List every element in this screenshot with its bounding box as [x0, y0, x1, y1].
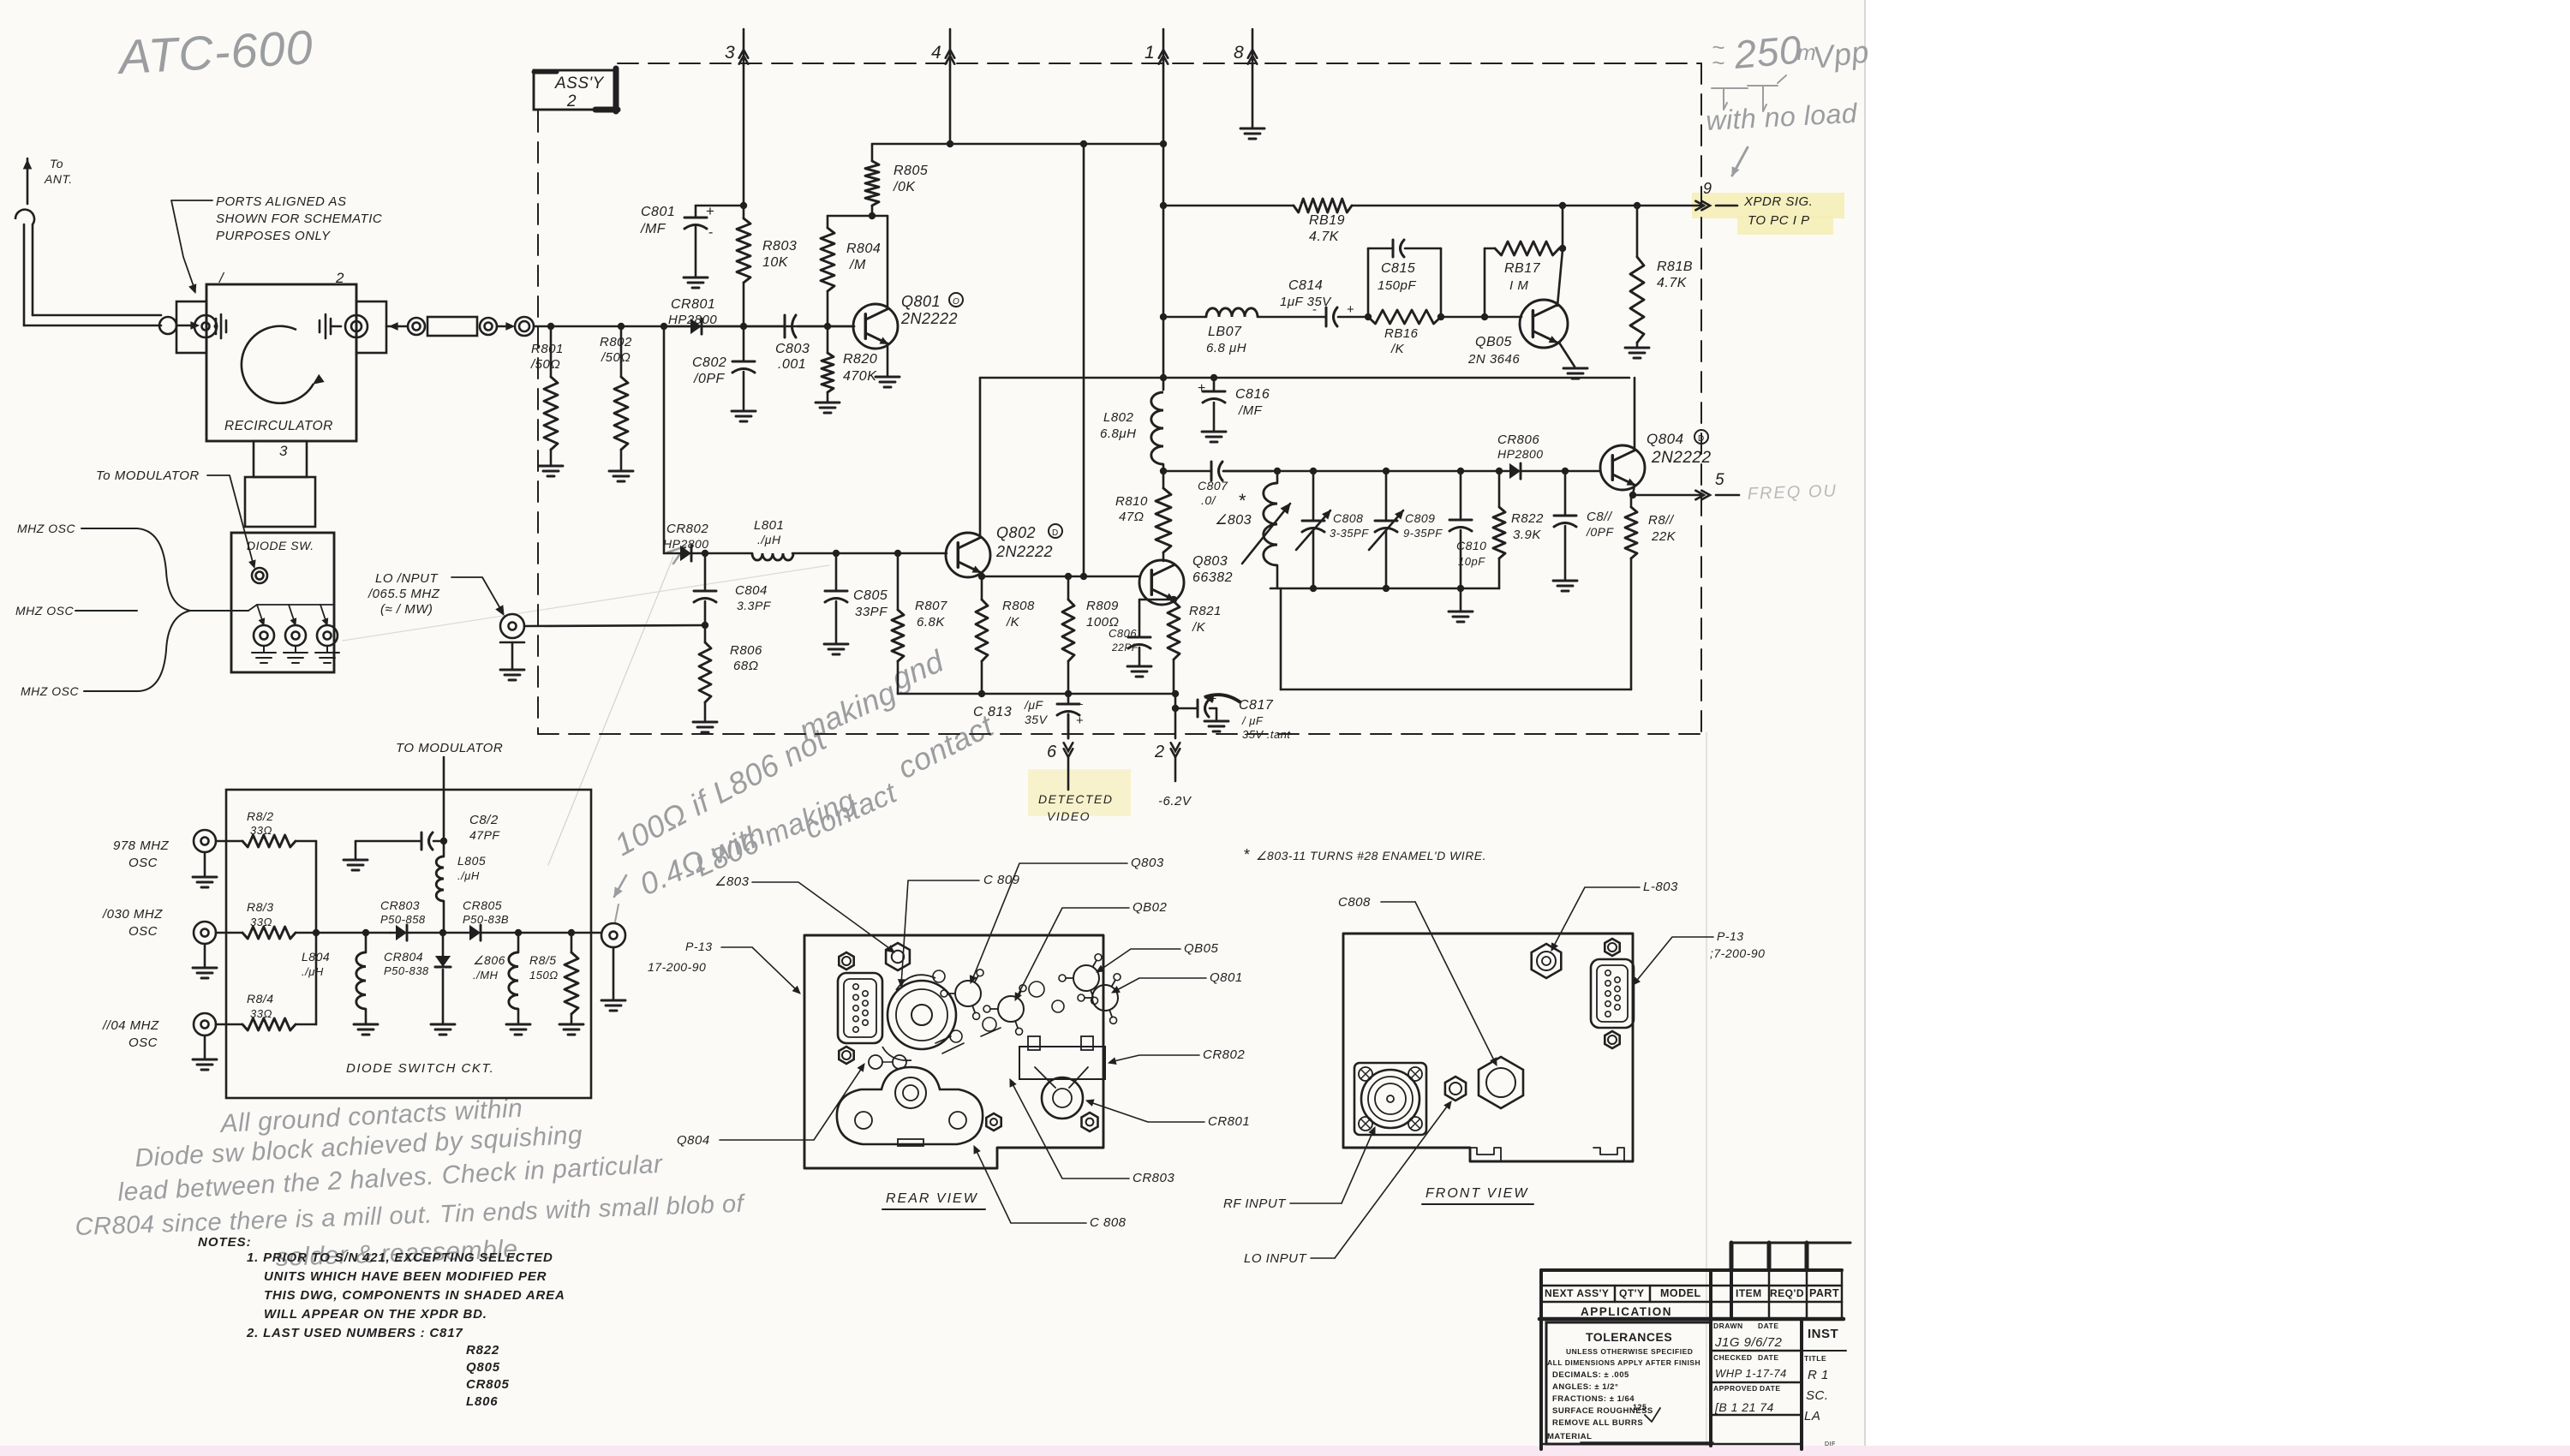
svg-text:RF INPUT: RF INPUT	[1223, 1196, 1287, 1211]
svg-text:~: ~	[1712, 50, 1725, 75]
pencil arrow small	[614, 875, 626, 897]
svg-text:CR803: CR803	[1133, 1171, 1174, 1185]
antenna feedline	[15, 210, 34, 224]
svg-text:CR806: CR806	[1497, 433, 1539, 447]
svg-text:LO INPUT: LO INPUT	[1244, 1251, 1308, 1266]
svg-text:ITEM: ITEM	[1736, 1287, 1762, 1299]
ground C817	[1204, 720, 1228, 723]
capacitor C809 variable	[1385, 471, 1388, 519]
resistor R811	[1630, 495, 1633, 507]
svg-text:QB02: QB02	[1133, 900, 1168, 915]
svg-text:FREQ OU: FREQ OU	[1747, 481, 1838, 504]
svg-text:./MH: ./MH	[473, 969, 499, 982]
front view C808 nut	[1479, 1057, 1523, 1108]
svg-text:P50-858: P50-858	[380, 913, 426, 926]
svg-text:Q805: Q805	[466, 1360, 500, 1375]
svg-text:R8/5: R8/5	[529, 953, 557, 967]
svg-text:1. PRIOR TO S/N 421, EXCEPTING: 1. PRIOR TO S/N 421, EXCEPTING SELECTED	[247, 1250, 553, 1265]
node C811	[1562, 468, 1569, 474]
svg-text:4: 4	[931, 43, 941, 63]
resistor R802	[620, 326, 623, 377]
svg-text:TITLE: TITLE	[1804, 1354, 1826, 1363]
resistor R822	[1498, 471, 1501, 507]
pin 8 connector	[1252, 29, 1254, 65]
wire Q802 base	[792, 552, 947, 555]
svg-text:J1G 9/6/72: J1G 9/6/72	[1714, 1335, 1783, 1350]
svg-text:OSC: OSC	[128, 924, 158, 939]
wire Q805 emitter	[1559, 343, 1575, 367]
ground pin8	[1240, 128, 1264, 130]
pin 5 freq out	[1701, 491, 1710, 500]
svg-text:R822: R822	[466, 1343, 499, 1358]
resistor R821	[1168, 601, 1180, 659]
svg-text:∠803-11 TURNS #28 ENAMEL'D WI: ∠803-11 TURNS #28 ENAMEL'D WIRE.	[1256, 849, 1486, 862]
connector 978	[194, 830, 216, 852]
svg-text:C806: C806	[1109, 627, 1137, 640]
svg-text:/50Ω: /50Ω	[530, 357, 560, 372]
recirculator arrow	[242, 326, 314, 403]
resistor R813	[242, 927, 296, 939]
svg-text:NOTES:: NOTES:	[198, 1235, 252, 1250]
arrow into port2	[390, 323, 397, 330]
front view LO connector	[1445, 1077, 1466, 1101]
wire tank bottom	[1270, 588, 1499, 590]
svg-text:DATE: DATE	[1758, 1322, 1779, 1330]
svg-text:R820: R820	[843, 352, 877, 367]
wire 978	[216, 840, 242, 843]
capacitor C806	[1139, 599, 1174, 601]
svg-text:CR804: CR804	[384, 950, 423, 964]
diode sw output wire	[571, 932, 601, 934]
svg-text:/MF: /MF	[640, 222, 666, 236]
svg-text:.001: .001	[778, 357, 806, 372]
svg-text:C815: C815	[1381, 261, 1415, 276]
resistor R818	[1636, 206, 1639, 257]
svg-text:Q803: Q803	[1192, 554, 1228, 569]
svg-text:10pF: 10pF	[1458, 555, 1485, 568]
title block top ticks	[1730, 1243, 1734, 1270]
diode CR806	[1509, 463, 1521, 479]
recirculator port3 stack	[254, 441, 307, 477]
svg-text:1: 1	[1145, 43, 1155, 63]
antenna arrow	[27, 158, 29, 204]
front view P-13 connector	[1591, 959, 1634, 1028]
title block col lines	[1614, 1286, 1617, 1302]
svg-text:/K: /K	[1390, 342, 1405, 356]
svg-text:TOLERANCES: TOLERANCES	[1586, 1330, 1672, 1344]
drawn box	[1800, 1319, 1803, 1449]
svg-text:THIS DWG, COMPONENTS IN SHADED: THIS DWG, COMPONENTS IN SHADED AREA	[264, 1288, 565, 1303]
svg-text:22K: 22K	[1651, 529, 1676, 544]
diode CR805	[443, 932, 469, 934]
connector at port1	[159, 317, 176, 334]
transistor Q802	[946, 533, 990, 577]
svg-text:L805: L805	[457, 854, 486, 868]
svg-text:R821: R821	[1189, 604, 1222, 618]
wire tank top	[1223, 470, 1509, 473]
inductor L804	[365, 933, 368, 952]
svg-text:150pF: 150pF	[1378, 278, 1416, 293]
wire tank to feedback	[1280, 588, 1282, 689]
wire Q804 emitter	[1633, 485, 1635, 495]
svg-text:_: _	[1075, 691, 1083, 705]
wire Q801 emitter	[887, 344, 889, 375]
pin 2 -6.2V	[1174, 694, 1177, 738]
svg-text:QT'Y: QT'Y	[1619, 1287, 1645, 1299]
node C805	[833, 550, 840, 557]
svg-text:4.7K: 4.7K	[1309, 230, 1340, 244]
svg-text:∠806: ∠806	[473, 953, 505, 967]
svg-text:L801: L801	[754, 518, 784, 533]
capacitor C815 parallel	[1367, 248, 1370, 317]
resistor R816	[1368, 310, 1441, 324]
diode switch ckt box	[226, 790, 591, 1098]
svg-text:QB05: QB05	[1184, 941, 1219, 956]
svg-text:To MODULATOR: To MODULATOR	[96, 468, 200, 483]
wire CR802 drop	[663, 326, 666, 553]
svg-text:VIDEO: VIDEO	[1047, 809, 1091, 823]
svg-text:C803: C803	[775, 342, 810, 356]
ground Q801	[876, 376, 899, 379]
resistor R815	[571, 933, 573, 952]
svg-text:C802: C802	[692, 355, 726, 370]
svg-text:/K: /K	[1192, 620, 1206, 635]
diode CR802	[664, 552, 680, 555]
svg-text://04 MHZ: //04 MHZ	[102, 1018, 159, 1033]
svg-text:Vpp: Vpp	[1811, 33, 1871, 75]
svg-text:+: +	[1198, 381, 1206, 396]
svg-text:REQ'D: REQ'D	[1770, 1287, 1804, 1299]
resistor R801	[550, 326, 553, 377]
svg-text:L804: L804	[302, 950, 330, 964]
title block outer	[1541, 1268, 1842, 1272]
resistor R806	[704, 625, 707, 642]
svg-text:Q801: Q801	[1210, 970, 1243, 985]
svg-text:2N 3646: 2N 3646	[1467, 352, 1520, 367]
svg-text:C805: C805	[853, 588, 888, 603]
diode sw top connector	[252, 568, 267, 583]
svg-text:470K: 470K	[843, 369, 877, 384]
pin 9 xpdr	[1701, 201, 1710, 211]
svg-text:MODEL: MODEL	[1660, 1287, 1701, 1299]
svg-text:ANT.: ANT.	[44, 172, 73, 186]
svg-text:I M: I M	[1509, 278, 1528, 293]
svg-text:OSC: OSC	[128, 1035, 158, 1050]
svg-text:2: 2	[335, 270, 344, 286]
svg-text:FRONT VIEW: FRONT VIEW	[1425, 1186, 1528, 1201]
svg-text:PART: PART	[1809, 1287, 1839, 1299]
capacitor C813	[1067, 694, 1070, 702]
svg-text:3: 3	[725, 43, 735, 63]
svg-text:33Ω: 33Ω	[250, 824, 272, 837]
svg-text:UNITS WHICH HAVE BEEN MODIFIED: UNITS WHICH HAVE BEEN MODIFIED PER	[264, 1269, 547, 1284]
diode sw inner wire	[248, 610, 327, 612]
capacitor C810	[1460, 471, 1462, 518]
svg-text:DETECTED: DETECTED	[1038, 792, 1113, 806]
inductor L801	[705, 552, 752, 555]
ink arrow C817	[1204, 695, 1240, 702]
wire 1030 line	[296, 932, 390, 934]
diode sw box	[231, 533, 334, 672]
svg-text:CR802: CR802	[1203, 1047, 1245, 1062]
svg-text:DIODE SW.: DIODE SW.	[247, 539, 314, 552]
wire main RF	[386, 325, 408, 328]
diode CR803	[396, 925, 407, 940]
svg-text:CR802: CR802	[666, 522, 708, 536]
svg-text:C808: C808	[1338, 895, 1371, 910]
svg-text:QB05: QB05	[1475, 335, 1512, 349]
node R803 main	[740, 323, 747, 330]
osc brace	[137, 528, 190, 691]
ground 978	[193, 876, 217, 879]
svg-text:Q804: Q804	[1647, 431, 1684, 447]
svg-text:MATERIAL: MATERIAL	[1547, 1432, 1592, 1441]
port1 cap symbol	[215, 319, 218, 334]
transistor Q804	[1600, 445, 1645, 490]
svg-text:150Ω: 150Ω	[529, 969, 559, 982]
diode CR801	[664, 325, 690, 328]
svg-text:./μH: ./μH	[757, 533, 781, 546]
recirculator port2 connector	[345, 315, 368, 337]
svg-text:35V .tant: 35V .tant	[1242, 728, 1291, 741]
diode CR804 shunt	[442, 933, 445, 956]
resistor R807	[897, 553, 899, 610]
svg-text:CR801: CR801	[1208, 1114, 1250, 1129]
svg-text:O: O	[953, 297, 959, 307]
svg-text:.0/: .0/	[1201, 493, 1217, 507]
svg-text:DIF: DIF	[1825, 1441, 1836, 1447]
svg-text:C8/2: C8/2	[469, 813, 499, 827]
resistor R812	[242, 835, 296, 847]
front view board outline	[1343, 934, 1633, 1161]
svg-text:Q804: Q804	[677, 1133, 710, 1148]
svg-text:68Ω: 68Ω	[733, 659, 759, 673]
svg-text:*: *	[1239, 490, 1246, 511]
wire xpdr	[1163, 205, 1294, 207]
LO input leader	[451, 577, 502, 612]
node L806	[515, 929, 522, 936]
ground C806	[1127, 665, 1151, 668]
svg-text:/0K: /0K	[893, 180, 916, 194]
svg-text:125: 125	[1633, 1403, 1647, 1411]
svg-text:DRAWN: DRAWN	[1713, 1322, 1743, 1330]
svg-text:6.8μH: 6.8μH	[1100, 427, 1136, 441]
svg-text:;7-200-90: ;7-200-90	[1710, 946, 1765, 960]
ground tank	[1460, 588, 1462, 610]
wire collector node Q801	[828, 215, 888, 218]
svg-text:978 MHZ: 978 MHZ	[113, 838, 170, 853]
capacitor C811	[1564, 471, 1567, 514]
recirculator port2 box	[356, 301, 386, 353]
svg-text:33Ω: 33Ω	[250, 916, 272, 928]
svg-text:R801: R801	[531, 342, 564, 356]
svg-text:Q802: Q802	[996, 524, 1036, 541]
svg-text:-: -	[708, 225, 714, 240]
svg-text:RB17: RB17	[1504, 261, 1541, 276]
svg-text:L802: L802	[1103, 410, 1134, 425]
svg-text:Q801: Q801	[901, 293, 941, 310]
coax link	[408, 318, 425, 335]
svg-text:LB07: LB07	[1208, 325, 1242, 339]
svg-text:WILL APPEAR ON THE XPDR BD.: WILL APPEAR ON THE XPDR BD.	[264, 1307, 487, 1322]
front view RF connector	[1354, 1063, 1426, 1135]
svg-text:R807: R807	[915, 599, 947, 613]
capacitor C804	[704, 553, 707, 589]
svg-text:TO MODULATOR: TO MODULATOR	[396, 741, 503, 755]
svg-text:(≈ / MW): (≈ / MW)	[380, 602, 433, 617]
svg-text:+: +	[706, 203, 714, 219]
svg-text:NEXT ASS'Y: NEXT ASS'Y	[1545, 1287, 1609, 1299]
wire Q802 collector	[979, 378, 982, 537]
node 775	[660, 323, 667, 330]
wire to R815	[518, 932, 571, 934]
wire 1104 to junction	[296, 1023, 316, 1026]
svg-text:RECIRCULATOR: RECIRCULATOR	[224, 419, 333, 433]
node R816 right	[1437, 313, 1444, 320]
node tank left	[1160, 468, 1167, 474]
wire 1030	[216, 932, 242, 934]
svg-text:CR803: CR803	[380, 898, 420, 912]
svg-text:R802: R802	[600, 335, 632, 349]
svg-text:R8/3: R8/3	[247, 900, 274, 914]
svg-text:R806: R806	[730, 643, 762, 658]
to modulator leader	[207, 475, 254, 565]
svg-text:CR801: CR801	[671, 297, 715, 312]
rear view CR801 can	[1042, 1077, 1083, 1119]
svg-text:HP2800: HP2800	[668, 313, 717, 327]
wire pin3 down	[743, 65, 745, 206]
node R809	[1065, 573, 1072, 580]
tolerances box	[1546, 1322, 1711, 1444]
capacitor C814	[1325, 307, 1328, 326]
svg-text:C807: C807	[1198, 479, 1228, 492]
svg-text:C 808: C 808	[1090, 1215, 1127, 1230]
svg-text:CR805: CR805	[466, 1377, 510, 1392]
ASS'Y 2 box	[534, 70, 618, 110]
svg-text:P50-83B: P50-83B	[463, 913, 509, 926]
inductor L805	[440, 838, 447, 844]
svg-text:MHZ OSC: MHZ OSC	[21, 684, 79, 698]
node R807	[894, 550, 901, 557]
rear view Q805 can	[1073, 965, 1099, 991]
rear view screw a	[1082, 1113, 1098, 1131]
inductor L806	[517, 933, 520, 952]
svg-text:LO /NPUT: LO /NPUT	[375, 571, 439, 586]
svg-text:6.8 μH: 6.8 μH	[1206, 341, 1246, 355]
svg-text:/ μF: / μF	[1241, 714, 1264, 727]
front view L803 nut	[1532, 944, 1562, 978]
svg-text:PORTS ALIGNED AS: PORTS ALIGNED AS	[216, 194, 347, 209]
svg-text:2: 2	[566, 92, 577, 110]
svg-text:+: +	[1347, 302, 1354, 317]
capacitor C812	[355, 841, 357, 858]
rear view CR802 block	[1019, 1047, 1105, 1079]
wire to Q804 base	[1565, 470, 1600, 473]
svg-text:47PF: 47PF	[469, 828, 500, 842]
svg-text:./μH: ./μH	[457, 869, 480, 882]
resistor R803	[743, 206, 745, 218]
svg-text:[B 1 21 74: [B 1 21 74	[1714, 1400, 1774, 1414]
front view feet	[1470, 1148, 1501, 1161]
svg-text:R809: R809	[1086, 599, 1119, 613]
svg-text:ANGLES: ± 1/2°: ANGLES: ± 1/2°	[1552, 1382, 1618, 1392]
capacitor C816	[1213, 378, 1216, 390]
svg-text:2N2222: 2N2222	[1651, 449, 1712, 467]
svg-text:C801: C801	[641, 205, 675, 219]
wire Q803 bias drop	[1083, 144, 1085, 576]
svg-text:3: 3	[279, 443, 288, 459]
svg-text:35V: 35V	[1025, 713, 1049, 726]
svg-text:/MF: /MF	[1238, 403, 1263, 418]
svg-text:L806: L806	[466, 1394, 498, 1409]
svg-text:UNLESS OTHERWISE SPECIFIED: UNLESS OTHERWISE SPECIFIED	[1566, 1347, 1693, 1356]
svg-text:D: D	[1052, 528, 1059, 538]
ground R806	[693, 721, 717, 724]
ground R801	[539, 465, 563, 468]
svg-text:R804: R804	[846, 242, 881, 256]
svg-text:47Ω: 47Ω	[1119, 510, 1145, 524]
ground R802	[609, 470, 633, 473]
svg-text:9-35PF: 9-35PF	[1403, 527, 1443, 540]
rear view Q801 can	[1092, 985, 1118, 1011]
svg-text:RB19: RB19	[1309, 213, 1345, 228]
recirculator box	[206, 284, 356, 441]
inductor L802	[1151, 392, 1163, 464]
svg-text:REMOVE ALL BURRS: REMOVE ALL BURRS	[1552, 1418, 1643, 1428]
svg-text:/μF: /μF	[1024, 698, 1044, 712]
wire Q804 collector	[1634, 378, 1636, 451]
svg-text:∠803: ∠803	[1215, 513, 1252, 528]
rear view Q803 can	[955, 981, 981, 1006]
capacitor C803	[744, 325, 785, 328]
node bias drop	[1080, 573, 1087, 580]
svg-text:/0PF: /0PF	[1586, 525, 1615, 539]
svg-text:DATE: DATE	[1758, 1353, 1779, 1362]
diode sw output connector	[601, 923, 625, 947]
svg-text:WHP 1-17-74: WHP 1-17-74	[1715, 1367, 1787, 1380]
inductor L803 variable	[1276, 471, 1279, 483]
recirculator port1 connector	[194, 315, 217, 337]
ground R820	[816, 402, 840, 404]
ground CR804	[431, 1023, 455, 1026]
resistor R810	[1162, 471, 1165, 488]
wire bias rail	[872, 143, 1163, 146]
svg-text:10K: 10K	[762, 255, 789, 270]
highlight XPDR SIG	[1692, 193, 1844, 218]
svg-text:PURPOSES ONLY: PURPOSES ONLY	[216, 229, 331, 243]
svg-text:-6.2V: -6.2V	[1158, 794, 1192, 809]
svg-text:HP2800: HP2800	[663, 537, 709, 551]
svg-text:2: 2	[1154, 743, 1165, 761]
ground L804	[354, 1023, 378, 1026]
svg-text:4.7K: 4.7K	[1657, 276, 1688, 290]
svg-text:ATC-600: ATC-600	[115, 20, 314, 84]
svg-text:./μH: ./μH	[302, 965, 324, 978]
svg-text:17-200-90: 17-200-90	[648, 960, 706, 974]
wire 1104	[216, 1023, 242, 1026]
connector 1030	[194, 922, 216, 944]
svg-text:REAR VIEW: REAR VIEW	[886, 1191, 978, 1206]
ground C801	[684, 277, 708, 279]
svg-text:2N2222: 2N2222	[995, 543, 1053, 560]
node C801/R803	[740, 202, 747, 209]
rear view Q802 can	[998, 996, 1024, 1022]
wire pin4 down	[949, 65, 952, 144]
svg-text:L-803: L-803	[1643, 880, 1678, 894]
svg-text:XPDR SIG.: XPDR SIG.	[1743, 194, 1813, 209]
svg-text:C810: C810	[1456, 539, 1486, 552]
svg-text:FRACTIONS: ± 1/64: FRACTIONS: ± 1/64	[1552, 1394, 1635, 1404]
